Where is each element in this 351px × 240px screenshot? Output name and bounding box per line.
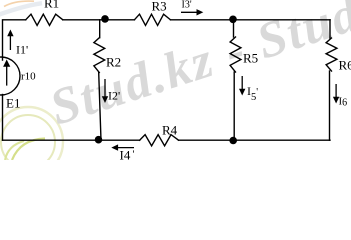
EMF arrow inside source <box>3 60 10 86</box>
node junction dot bottom R2 <box>95 136 103 144</box>
svg-text:I6: I6 <box>339 96 348 109</box>
svg-text:I3': I3' <box>182 0 192 11</box>
wire R5 branch upper <box>233 20 235 37</box>
node junction dot bottom R5 <box>229 137 237 145</box>
wire R2 branch lower <box>99 73 101 141</box>
svg-text:R5: R5 <box>243 51 258 66</box>
wire top left <box>3 20 26 60</box>
watermark orange arc top-left <box>4 1 34 6</box>
svg-text:R4: R4 <box>162 123 178 138</box>
watermark pale blue band top-left <box>0 3 42 15</box>
svg-text:I4 ': I4 ' <box>120 148 135 161</box>
resistor R2 <box>94 38 105 73</box>
wire right branch lower <box>329 71 331 140</box>
watermark logo bottom-left <box>0 107 63 177</box>
resistor R1 <box>26 14 63 25</box>
svg-text:R6: R6 <box>339 58 351 73</box>
resistor R4 <box>140 135 179 146</box>
wire bottom right <box>179 139 331 141</box>
resistor R3 <box>134 14 170 25</box>
svg-text:R1: R1 <box>44 0 59 11</box>
svg-text:r10: r10 <box>21 71 36 83</box>
svg-text:R3: R3 <box>152 0 167 14</box>
current arrow I4' <box>111 144 134 150</box>
resistor R6 <box>326 38 337 71</box>
wire bottom left <box>3 139 140 141</box>
svg-text:E1: E1 <box>6 96 20 111</box>
current arrow I2' <box>102 79 108 103</box>
current arrow I1' <box>7 30 13 51</box>
source E1 circle <box>0 57 20 95</box>
resistor R5 <box>230 37 241 72</box>
wire top right <box>171 19 331 21</box>
current arrow I3' <box>181 9 203 15</box>
node junction dot top R5 <box>229 15 237 23</box>
current arrow I6 <box>333 84 339 104</box>
wire R5 branch lower <box>233 72 235 140</box>
wire top middle <box>63 19 135 21</box>
wire R2 branch upper <box>99 20 101 38</box>
svg-text:R2: R2 <box>106 55 121 70</box>
wire left branch lower <box>2 95 4 141</box>
wire right branch upper <box>329 20 331 39</box>
node junction dot top R2 <box>101 15 109 23</box>
svg-text:I2': I2' <box>108 89 120 103</box>
svg-text:I1': I1' <box>16 43 28 57</box>
current arrow I5' <box>239 76 245 96</box>
